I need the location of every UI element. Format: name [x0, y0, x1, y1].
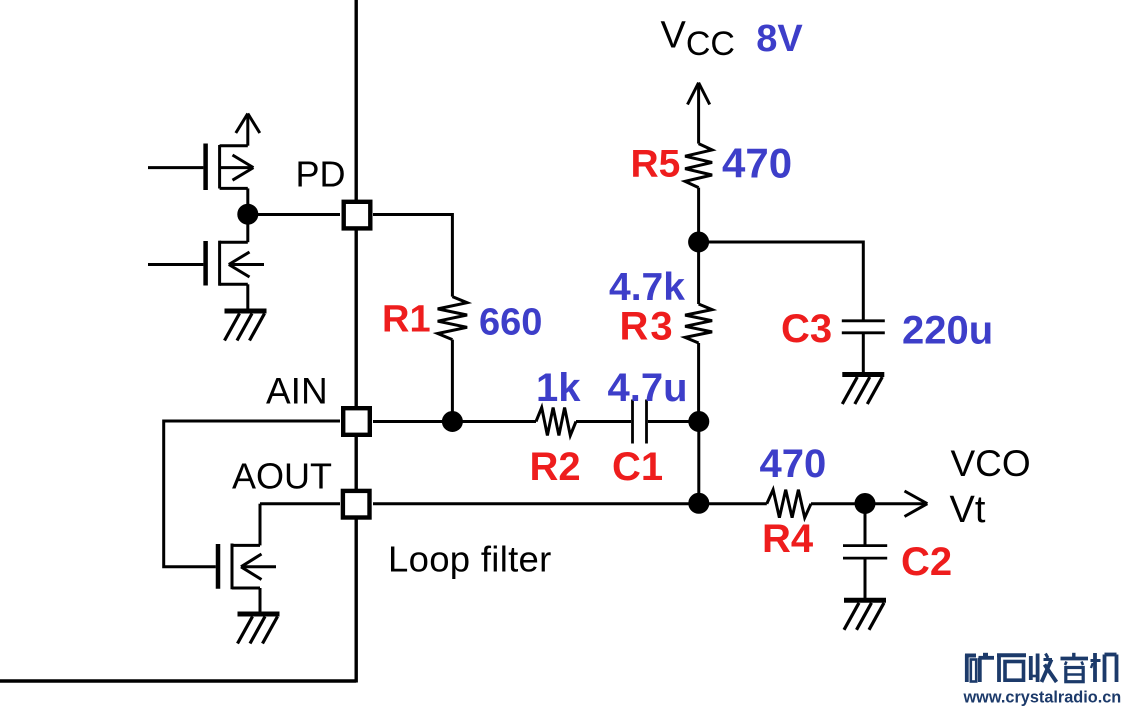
ground under Q3 — [238, 614, 280, 644]
svg-text:660: 660 — [479, 302, 542, 344]
Q2 gate lead — [148, 263, 203, 266]
resistor R1 zigzag — [438, 297, 467, 340]
wire node to AOUT line — [697, 422, 700, 504]
wire AIN left to Q3 gate (corner) — [164, 421, 340, 567]
transistor Q1 (upper PMOS) — [148, 114, 260, 215]
resistor R5 zigzag — [685, 144, 712, 188]
Q2 gate bar — [203, 241, 208, 286]
svg-text:R5: R5 — [631, 142, 681, 185]
capacitor C2 plates — [843, 544, 887, 547]
node junction dot Q1/Q2 drains — [239, 205, 257, 223]
wire PD pin to R1 (corner) — [373, 215, 452, 297]
ground under C3 — [842, 375, 884, 405]
node junction dot AOUT line — [690, 494, 708, 512]
wire R5 to node — [697, 188, 700, 242]
ground under C2 — [844, 600, 886, 630]
Q3 channel — [231, 544, 234, 590]
svg-text:470: 470 — [722, 139, 792, 186]
watermark char yin — [1061, 653, 1089, 682]
wire C3 branch top — [699, 242, 864, 321]
Q1 channel — [218, 145, 221, 189]
Q3 source arrow — [241, 565, 276, 568]
svg-text:C1: C1 — [612, 445, 663, 489]
svg-text:R2: R2 — [530, 445, 581, 489]
svg-text:8V: 8V — [756, 18, 803, 60]
wire R1 bottom — [451, 340, 454, 422]
ground under Q2 — [225, 311, 267, 341]
pin PD square — [344, 202, 371, 229]
VCO output arrow — [865, 491, 927, 517]
svg-text:C2: C2 — [901, 540, 952, 584]
Q2 bottom horizontal — [220, 283, 248, 286]
watermark char shi — [997, 655, 1026, 682]
Q2 channel — [218, 241, 221, 286]
node junction dot R5/R3/C3 — [690, 233, 708, 251]
pin AOUT square — [343, 491, 370, 518]
transistor Q3 (bottom NMOS) — [218, 504, 276, 614]
node junction dot R1/AIN — [443, 413, 461, 431]
wire bottom horizontal line — [0, 679, 356, 682]
Q3 top lead — [259, 504, 262, 546]
wire main IC vertical line — [355, 0, 358, 683]
svg-text:VCC: VCC — [661, 15, 735, 64]
svg-text:R4: R4 — [762, 517, 814, 561]
svg-text:PD: PD — [296, 154, 346, 195]
Q2 source arrow — [229, 263, 264, 266]
watermark char kuang — [965, 655, 994, 683]
Q1 up-arrow lead — [246, 114, 249, 146]
watermark char ji — [1091, 653, 1117, 682]
Q3 bottom lead — [259, 588, 262, 614]
Q3 bottom horizontal — [232, 587, 260, 590]
svg-text:470: 470 — [760, 442, 827, 486]
svg-text:Vt: Vt — [950, 489, 986, 531]
Q1 gate lead — [148, 166, 203, 169]
svg-text:VCO: VCO — [951, 443, 1031, 484]
Q2 top lead — [246, 214, 249, 242]
node junction dot C1/R3 — [690, 413, 708, 431]
svg-text:220u: 220u — [902, 309, 993, 353]
pin AIN square — [343, 408, 370, 435]
svg-text:www.crystalradio.cn: www.crystalradio.cn — [963, 689, 1122, 707]
capacitor C1 plates — [631, 400, 634, 444]
svg-text:4.7k: 4.7k — [609, 266, 685, 309]
resistor R3 zigzag — [685, 304, 712, 343]
watermark char shou — [1031, 654, 1057, 683]
Q3 top horizontal — [232, 544, 260, 547]
resistor R2 zigzag — [536, 408, 576, 436]
Q1 gate bar — [203, 144, 208, 191]
capacitor C3 plates — [842, 319, 885, 322]
Q1 drain lead — [246, 188, 249, 214]
node junction dot R4/C2 — [856, 495, 874, 513]
wire node to R3 — [697, 242, 700, 304]
wire R2 to C1 — [576, 420, 631, 423]
wire R4 to C2 node — [811, 502, 865, 505]
svg-text:C3: C3 — [781, 307, 832, 351]
wire AIN to R2 — [373, 420, 536, 423]
wire C2 to ground — [864, 558, 867, 600]
svg-text:Loop filter: Loop filter — [388, 538, 552, 579]
wire C3 to ground — [862, 333, 865, 375]
wire C2 top — [864, 504, 867, 546]
svg-text:4.7u: 4.7u — [608, 366, 688, 410]
svg-text:R3: R3 — [620, 305, 675, 349]
resistor R4 zigzag — [767, 490, 811, 518]
Q1 top horizontal — [220, 144, 248, 147]
Q2 bottom lead — [246, 284, 249, 309]
Q3 gate bar — [216, 544, 221, 589]
wire AOUT to R4 — [373, 502, 767, 505]
wire C1 to node — [648, 420, 699, 423]
Q1 source arrow — [220, 166, 254, 169]
wire R3 bottom — [697, 343, 700, 422]
svg-text:AIN: AIN — [266, 371, 328, 412]
svg-text:R1: R1 — [382, 298, 431, 340]
svg-text:AOUT: AOUT — [232, 456, 332, 497]
wire PD pin to transistor pair — [248, 213, 340, 216]
wire AOUT to Q3 — [260, 502, 340, 505]
svg-text:1k: 1k — [536, 366, 581, 410]
Q2 top horizontal — [220, 241, 248, 244]
VCC arrow — [688, 83, 710, 144]
Q1 bottom horizontal — [220, 187, 248, 190]
transistor Q2 (lower NMOS of pair) — [148, 214, 264, 309]
watermark logo — [965, 653, 1117, 682]
